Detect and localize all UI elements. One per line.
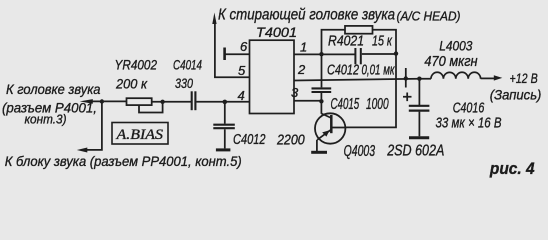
wire C4014 to pin4 (196, 101, 249, 103)
wire top rail right and down to collector (345, 30, 396, 128)
inductor L4003 (431, 72, 481, 78)
resistor YR4002 box (127, 98, 152, 105)
svg-text:YR4002: YR4002 (115, 57, 158, 73)
wire pin1 (294, 53, 355, 55)
svg-text:К стирающей головке звука: К стирающей головке звука (218, 7, 395, 24)
svg-text:3: 3 (291, 85, 299, 100)
node junction dot A (100, 99, 104, 103)
node +12V arrowhead (494, 75, 503, 80)
wire pin3 (294, 100, 321, 102)
svg-text:T4001: T4001 (256, 25, 297, 40)
svg-text:C4012: C4012 (327, 63, 359, 79)
svg-text:+12 В: +12 В (510, 70, 538, 86)
capacitor C4012 0,01mk plates (354, 48, 356, 64)
resistor R4021 box (345, 26, 373, 34)
svg-text:R4021: R4021 (328, 34, 364, 50)
capacitor C4014 plates (191, 91, 193, 110)
svg-text:200 к: 200 к (115, 76, 148, 92)
svg-text:(Запись): (Запись) (490, 87, 542, 103)
node down-branch arrowhead (77, 148, 88, 153)
ground under C4012 (216, 148, 231, 151)
svg-text:2SD 602A: 2SD 602A (386, 143, 444, 160)
svg-text:A.BIAS: A.BIAS (115, 127, 163, 143)
wire pin2 supply line (294, 79, 431, 81)
ground under Q4003 emitter (311, 151, 327, 154)
node junction dot B (160, 100, 164, 104)
svg-text:330: 330 (175, 75, 193, 91)
svg-text:C4014: C4014 (173, 57, 202, 73)
svg-text:К головке звука: К головке звука (6, 81, 101, 97)
wire main bias line left (88, 100, 127, 102)
wire to +12V (481, 77, 495, 79)
svg-text:5: 5 (238, 63, 246, 78)
wire feedback top rail (322, 30, 346, 55)
node junction dot pin1 (319, 52, 323, 56)
wire resistor right to C4014 (152, 101, 192, 103)
svg-text:К блоку звука (разъем РР4001,: К блоку звука (разъем РР4001, конт.5) (5, 153, 242, 169)
wire C4012 right to vertical (362, 53, 396, 55)
node junction dot right vertical (394, 51, 398, 55)
svg-text:33 мк × 16 В: 33 мк × 16 В (436, 116, 502, 132)
svg-text:0,01 мк: 0,01 мк (362, 63, 396, 79)
op-amp U1 T4001 IC box (250, 40, 295, 113)
node left arrowhead К головке звука (80, 99, 93, 104)
node junction dot C4016 (417, 77, 421, 81)
transistor Q4003 (320, 101, 322, 114)
capacitor C4012 2200 (224, 102, 226, 124)
svg-text:C4015: C4015 (331, 96, 360, 113)
svg-text:конт.3): конт.3) (25, 112, 67, 127)
capacitor C4015 (321, 54, 323, 87)
wire pin6 (225, 53, 250, 55)
svg-text:C4016: C4016 (453, 101, 485, 117)
svg-text:1: 1 (300, 40, 307, 55)
svg-text:15 к: 15 к (372, 34, 393, 50)
node tick junction (405, 68, 407, 88)
svg-text:4: 4 (238, 88, 245, 103)
svg-text:(A/C HEAD): (A/C HEAD) (397, 9, 461, 24)
node pin6 terminal bar (223, 48, 226, 61)
wire erase-head arrow vertical to pin5 (215, 22, 250, 77)
svg-text:2: 2 (297, 62, 306, 77)
svg-text:6: 6 (240, 39, 248, 54)
node emitter arrowhead (322, 130, 329, 136)
node junction dot pin3 (319, 99, 323, 103)
label A.BIAS box (112, 123, 168, 145)
capacitor C4016 electrolytic (418, 79, 420, 105)
svg-text:рис. 4: рис. 4 (489, 159, 535, 178)
node junction dot C (223, 100, 228, 105)
svg-text:Q4003: Q4003 (344, 143, 376, 160)
svg-text:L4003: L4003 (439, 38, 472, 54)
ground under C4016 (409, 136, 429, 139)
node erase-head arrowhead (212, 13, 216, 25)
wire rheostat tap (139, 102, 163, 113)
svg-text:1000: 1000 (366, 96, 389, 113)
svg-text:470 мкгн: 470 мкгн (424, 54, 477, 70)
node plus polarity mark (403, 93, 412, 102)
svg-text:2200: 2200 (276, 131, 305, 148)
wire branch down to блок звука (86, 102, 102, 150)
svg-text:C4012: C4012 (233, 131, 266, 148)
